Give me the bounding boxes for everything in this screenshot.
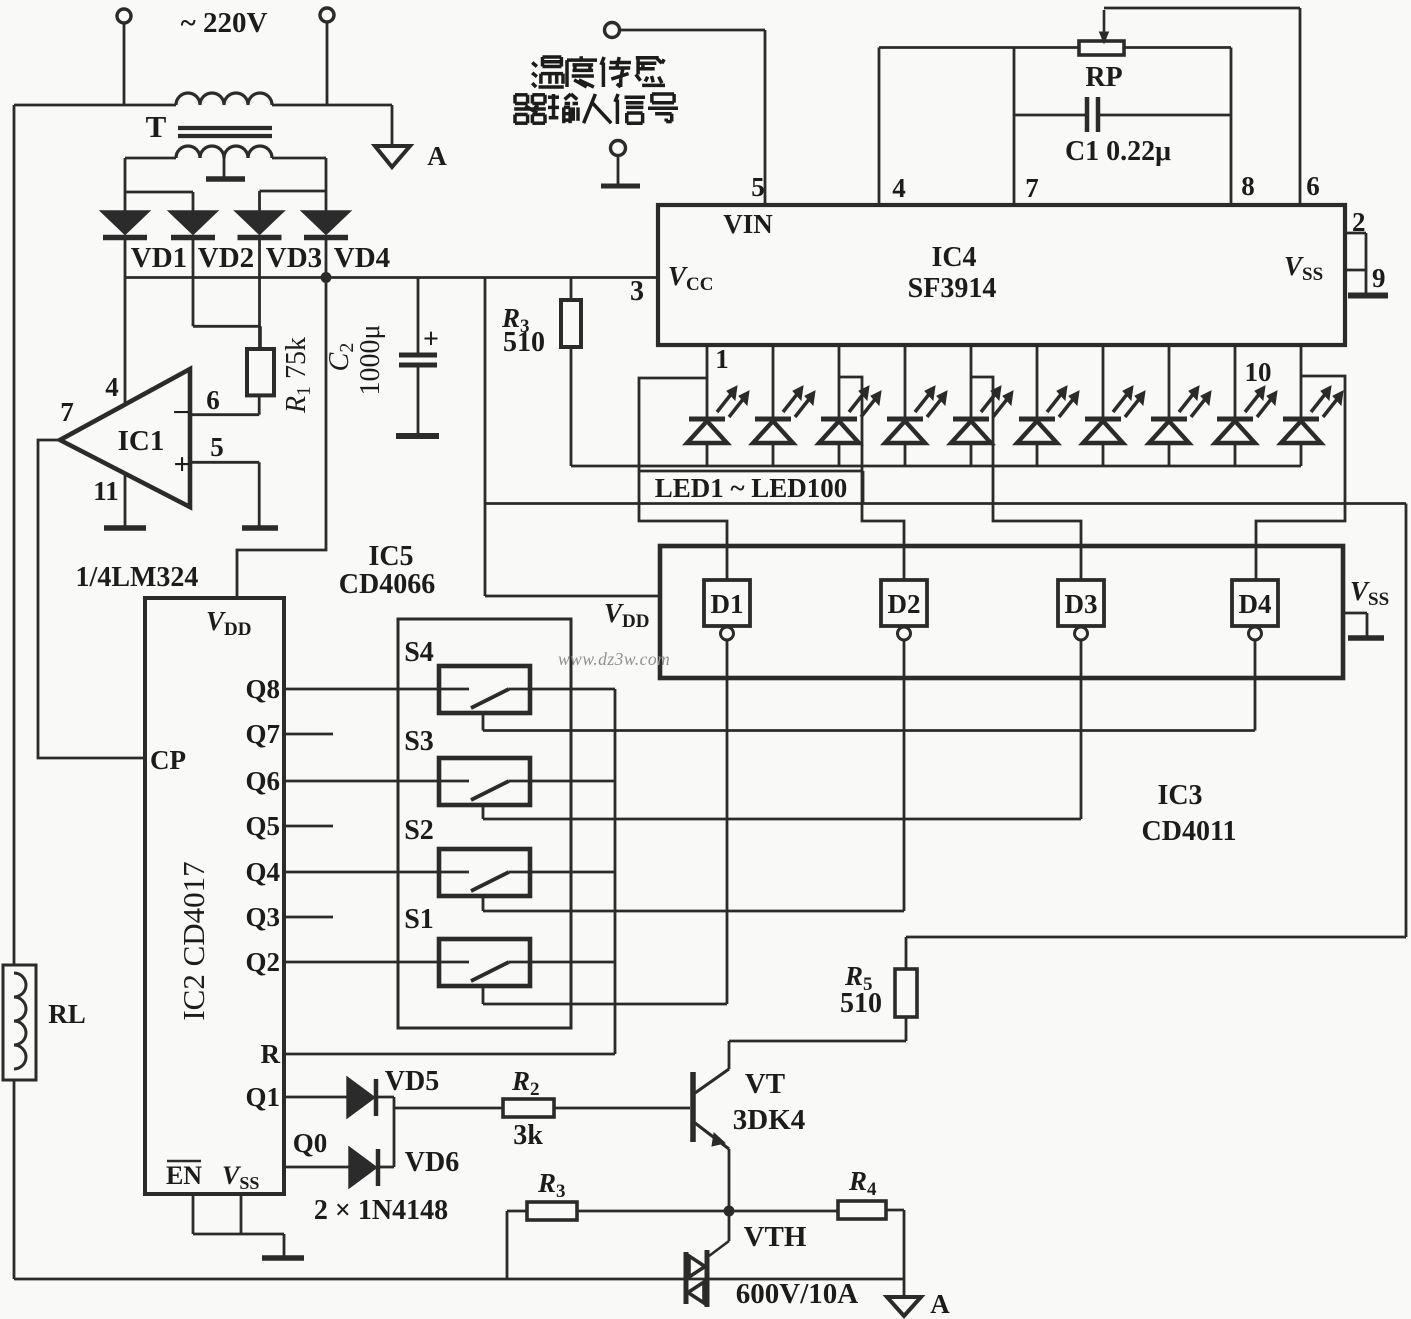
wire: S3 lower terminal to D3 line: [482, 805, 485, 819]
svg-text:6: 6: [1306, 171, 1320, 201]
svg-text:D4: D4: [1239, 589, 1272, 619]
wire: IC1 output pin7 to CP: [38, 440, 145, 758]
wire: Vcc to Vdd vertical: [484, 278, 487, 597]
svg-text:2 × 1N4148: 2 × 1N4148: [314, 1195, 448, 1226]
wire: bottom rail: [14, 1278, 904, 1281]
svg-text:−: −: [172, 396, 189, 429]
wire: Vcc rail: [125, 276, 658, 279]
svg-text:VSS: VSS: [222, 1161, 259, 1193]
LED column 3 (LED21..): [838, 345, 841, 417]
svg-text:+: +: [173, 448, 190, 481]
svg-text:1/4LM324: 1/4LM324: [76, 562, 199, 593]
svg-text:IC4: IC4: [931, 242, 976, 273]
ground (IC2): [262, 1255, 304, 1261]
wire: S4 lower terminal to D4 line: [482, 713, 485, 731]
svg-text:CD4011: CD4011: [1142, 816, 1237, 847]
svg-text:www.dz3w.com: www.dz3w.com: [558, 649, 670, 669]
svg-text:R4: R4: [848, 1166, 877, 1200]
svg-text:VSS: VSS: [1350, 576, 1389, 610]
svg-text:~ 220V: ~ 220V: [181, 7, 268, 39]
wire: VD2 to R1 top jog: [193, 325, 260, 328]
wire: primary left lead: [14, 104, 176, 107]
wire: pin5 non-inverting input to ground: [190, 461, 259, 464]
svg-text:Q3: Q3: [245, 902, 280, 932]
svg-text:7: 7: [1025, 173, 1039, 203]
svg-text:VD4: VD4: [334, 242, 390, 274]
svg-text:IC2 CD4017: IC2 CD4017: [176, 861, 211, 1020]
diode VD2: [171, 212, 215, 233]
svg-text:VDD: VDD: [604, 598, 649, 632]
resistor R3 510 (Vcc to LED bus): [570, 278, 573, 301]
ground (IC1 pin 11): [104, 525, 146, 531]
svg-text:T: T: [146, 109, 167, 144]
transistor VT 3DK4: [690, 1072, 696, 1142]
svg-text:VSS: VSS: [1284, 251, 1323, 285]
svg-text:C1 0.22μ: C1 0.22μ: [1065, 136, 1171, 167]
stub Q5: [284, 825, 333, 828]
LED column 8 (LED71..): [1168, 345, 1171, 417]
analog switch S3: [439, 758, 530, 805]
analog switch S1: [439, 939, 530, 986]
svg-text:VD3: VD3: [266, 242, 322, 274]
svg-text:VD2: VD2: [198, 242, 254, 274]
wire: VD1 cathode down to Vcc rail and IC1 pin4: [124, 240, 127, 405]
terminal: temperature sensor signal: [605, 23, 620, 38]
analog switch S2: [439, 849, 530, 896]
secondary center tap lead: [223, 158, 226, 177]
wire: Vdd distribution line: [484, 502, 1406, 505]
NAND gate D3: [1058, 580, 1104, 626]
node: emitter junction: [724, 1206, 735, 1217]
svg-text:SF3914: SF3914: [908, 273, 997, 304]
svg-text:D3: D3: [1065, 589, 1098, 619]
wire: D4 output down-left to switch: [1254, 640, 1257, 731]
svg-text:VCC: VCC: [668, 261, 713, 295]
svg-text:CD4066: CD4066: [339, 569, 435, 600]
op-amp IC4 SF3914 box: [658, 205, 1345, 345]
terminal: AC live input: [117, 9, 131, 23]
IC5 CD4066 box: [398, 619, 571, 1028]
wire: sensor to IC4 pin5: [619, 29, 765, 32]
svg-text:RP: RP: [1085, 62, 1122, 93]
svg-text:VIN: VIN: [723, 209, 773, 239]
wire: S2 lower terminal to D2 line: [482, 896, 485, 911]
IC3 Vss pin with bar: [1343, 612, 1367, 615]
svg-text:VD1: VD1: [131, 242, 187, 274]
svg-text:S2: S2: [404, 815, 434, 846]
wire: Q1 to VD5: [284, 1096, 348, 1099]
wire: LED1 tap to gate D1: [639, 378, 727, 580]
resistor R1: [259, 326, 262, 349]
svg-text:Q2: Q2: [245, 947, 280, 977]
svg-text:1: 1: [715, 344, 729, 374]
svg-text:3DK4: 3DK4: [733, 1104, 806, 1136]
NAND gate D2: [881, 580, 927, 626]
wire: Q0 output: [284, 1166, 350, 1169]
wire: VD2 cathode down: [192, 240, 195, 326]
wire: switch common output to R input: [614, 689, 617, 1054]
IC2 CD4017 box: [145, 598, 284, 1194]
stub Q3: [284, 916, 333, 919]
svg-text:600V/10A: 600V/10A: [736, 1278, 859, 1310]
svg-text:IC3: IC3: [1157, 780, 1202, 811]
svg-text:7: 7: [60, 397, 74, 427]
pin 4 stub: [878, 48, 881, 206]
svg-text:S4: S4: [404, 637, 434, 668]
stub Q7: [284, 733, 333, 736]
transformer T primary winding: [176, 93, 272, 105]
svg-text:S3: S3: [404, 726, 434, 757]
ground A (top): [391, 105, 394, 144]
LED1~LED100 label box: [639, 470, 863, 473]
wire: R input of IC2: [284, 1053, 615, 1056]
resistor R4: [838, 1201, 886, 1219]
LED column 2 (LED11..): [772, 345, 775, 417]
wire: emitter rail: [577, 1210, 838, 1213]
svg-text:9: 9: [1372, 263, 1386, 293]
wire: diode-OR junction: [393, 1097, 396, 1167]
transformer T core: [178, 126, 272, 130]
label IC2 CD4017 (rotated): [176, 861, 211, 1020]
svg-text:Q8: Q8: [245, 674, 280, 704]
resistor R2 3k: [503, 1099, 554, 1117]
analog switch S4: [439, 666, 530, 713]
wire: emitter down: [728, 1149, 731, 1211]
svg-text:D2: D2: [888, 589, 921, 619]
NAND gate D4: [1232, 580, 1278, 626]
pin 6 stub: [1299, 8, 1302, 205]
svg-text:VTH: VTH: [744, 1221, 807, 1253]
wire: LED anode bus: [571, 465, 1301, 468]
svg-text:R1 75k: R1 75k: [281, 337, 315, 414]
wire: D2 output down-left to switch: [903, 640, 906, 911]
wire: RP to pin8: [1124, 46, 1231, 49]
svg-text:R3: R3: [537, 1168, 566, 1202]
svg-text:CP: CP: [150, 745, 186, 775]
node: Vcc rail junction at VD4: [321, 272, 332, 283]
svg-text:4: 4: [105, 372, 119, 402]
svg-text:VD6: VD6: [405, 1147, 459, 1178]
wire: VD3 anode jumper: [260, 190, 327, 193]
wire: wiper to pin6: [1104, 7, 1300, 10]
LED column 6 (LED51..): [1036, 345, 1039, 417]
svg-text:VT: VT: [745, 1068, 785, 1100]
svg-text:EN: EN: [166, 1161, 202, 1190]
svg-text:Q6: Q6: [245, 766, 280, 796]
LED column 9 (LED81..): [1234, 345, 1237, 417]
IC3 CD4011 box: [660, 546, 1343, 678]
svg-text:510: 510: [503, 327, 545, 358]
LED column 5 (LED41..): [970, 345, 973, 417]
wire: LED10 tap to gate D4: [1256, 376, 1345, 580]
capacitor C1: [1014, 114, 1085, 117]
svg-text:11: 11: [93, 476, 119, 506]
pin 9 stub and label: [1345, 269, 1366, 272]
wire: mains left rail down to RL: [13, 105, 16, 965]
svg-text:LED1 ~ LED100: LED1 ~ LED100: [655, 473, 848, 503]
wire: IC2 Vdd feed from Vcc node: [237, 278, 326, 599]
svg-text:VDD: VDD: [206, 606, 251, 640]
diode VD5: [348, 1079, 373, 1116]
diode VD6: [350, 1149, 375, 1186]
LED column 4 (LED31..): [904, 345, 907, 417]
diode VD4: [304, 212, 348, 233]
wire: RL to bottom rail: [13, 1080, 16, 1279]
svg-text:D1: D1: [711, 589, 744, 619]
wire: gate lead: [728, 1211, 731, 1241]
capacitor C2 1000u: [417, 278, 420, 354]
svg-text:10: 10: [1245, 357, 1272, 387]
svg-text:Q4: Q4: [245, 857, 280, 887]
terminal: sensor return with bar: [611, 141, 626, 156]
svg-text:R2: R2: [511, 1066, 540, 1100]
label R1 75k (rotated): [281, 337, 315, 414]
wire: VD2 anode jumper: [125, 191, 193, 194]
svg-text:A: A: [427, 141, 447, 171]
label: temperature sensor input text (hand-drawn CJK strokes): [532, 63, 537, 67]
ground A (bottom): [903, 1279, 906, 1296]
svg-text:2: 2: [1352, 207, 1366, 237]
pin 7 stub: [1013, 48, 1016, 206]
wire: primary right lead to ground A: [272, 104, 392, 107]
svg-text:Q7: Q7: [245, 719, 280, 749]
svg-text:8: 8: [1241, 171, 1255, 201]
svg-text:1000μ: 1000μ: [355, 324, 386, 395]
wire: S1 lower terminal to D1 line: [482, 986, 485, 1004]
svg-text:3k: 3k: [513, 1120, 543, 1151]
wire: D1 output down-left to switch: [726, 640, 729, 1004]
pin 2 stub and label: [1345, 232, 1366, 235]
wire: R2 to VT base: [554, 1107, 690, 1110]
svg-text:5: 5: [751, 172, 765, 202]
wire: EN/Vss to ground: [192, 1194, 195, 1234]
ground (IC1 pin 5): [242, 525, 278, 531]
wire: secondary left lead: [125, 157, 176, 160]
NAND gate D1: [704, 580, 750, 626]
heater load RL: [3, 965, 36, 1080]
wire: Vdd feed to IC3: [485, 595, 660, 598]
svg-text:C2: C2: [324, 343, 358, 372]
svg-text:510: 510: [840, 988, 882, 1019]
wire: IC1 pin11 to ground: [124, 474, 127, 526]
wire: secondary right lead: [272, 157, 326, 160]
svg-text:3: 3: [630, 276, 644, 307]
wire: VD4 cathode down: [325, 240, 328, 278]
resistor R5 510: [905, 1017, 908, 1041]
label C2 1000u (rotated): [324, 343, 358, 372]
op-amp IC1 (1/4 LM324): [60, 369, 190, 507]
RP wiper arrow: [1103, 10, 1106, 36]
triac VTH: [684, 1252, 689, 1304]
svg-text:IC5: IC5: [368, 541, 413, 572]
bar terminal (IC4 pins 2/9): [1348, 293, 1388, 299]
LED column 10 (LED91..): [1300, 345, 1303, 417]
svg-text:A: A: [930, 1289, 950, 1319]
wire: LED3 tap to gate D2: [839, 377, 904, 580]
wire: collector to R5: [728, 1041, 731, 1069]
LED column 1 (LED1..): [706, 345, 709, 417]
svg-text:+: +: [423, 324, 439, 355]
wire: VD3 cathode down to R1: [258, 240, 261, 349]
wire: pin6 inverting input from R1: [190, 413, 259, 416]
wire: D3 output down-left to switch: [1080, 640, 1083, 819]
svg-text:Q5: Q5: [245, 811, 280, 841]
svg-text:6: 6: [206, 385, 220, 415]
transformer T secondary winding: [176, 146, 272, 158]
potentiometer RP: [1079, 41, 1124, 55]
diode VD3: [238, 212, 282, 233]
wire: to R2: [394, 1107, 503, 1110]
resistor R3 (lower): [527, 1202, 577, 1220]
svg-text:VD5: VD5: [385, 1066, 439, 1097]
svg-text:R: R: [261, 1039, 281, 1069]
svg-text:4: 4: [892, 173, 906, 203]
LED column 7 (LED61..): [1102, 345, 1105, 417]
wire: Vdd right drop to R5: [1405, 504, 1408, 938]
svg-text:Q1: Q1: [245, 1082, 280, 1112]
svg-text:5: 5: [210, 432, 224, 462]
ground (C2): [396, 433, 439, 439]
svg-text:S1: S1: [404, 904, 434, 935]
svg-text:RL: RL: [48, 999, 86, 1029]
pin 8 stub: [1230, 48, 1233, 206]
wire: LED5 tap to gate D3: [971, 377, 1081, 580]
svg-text:Q0: Q0: [293, 1128, 328, 1158]
terminal: AC neutral input: [320, 8, 334, 22]
svg-text:IC1: IC1: [118, 425, 165, 457]
wire: pin4 to RP: [879, 46, 1079, 49]
diode VD1: [103, 212, 147, 233]
